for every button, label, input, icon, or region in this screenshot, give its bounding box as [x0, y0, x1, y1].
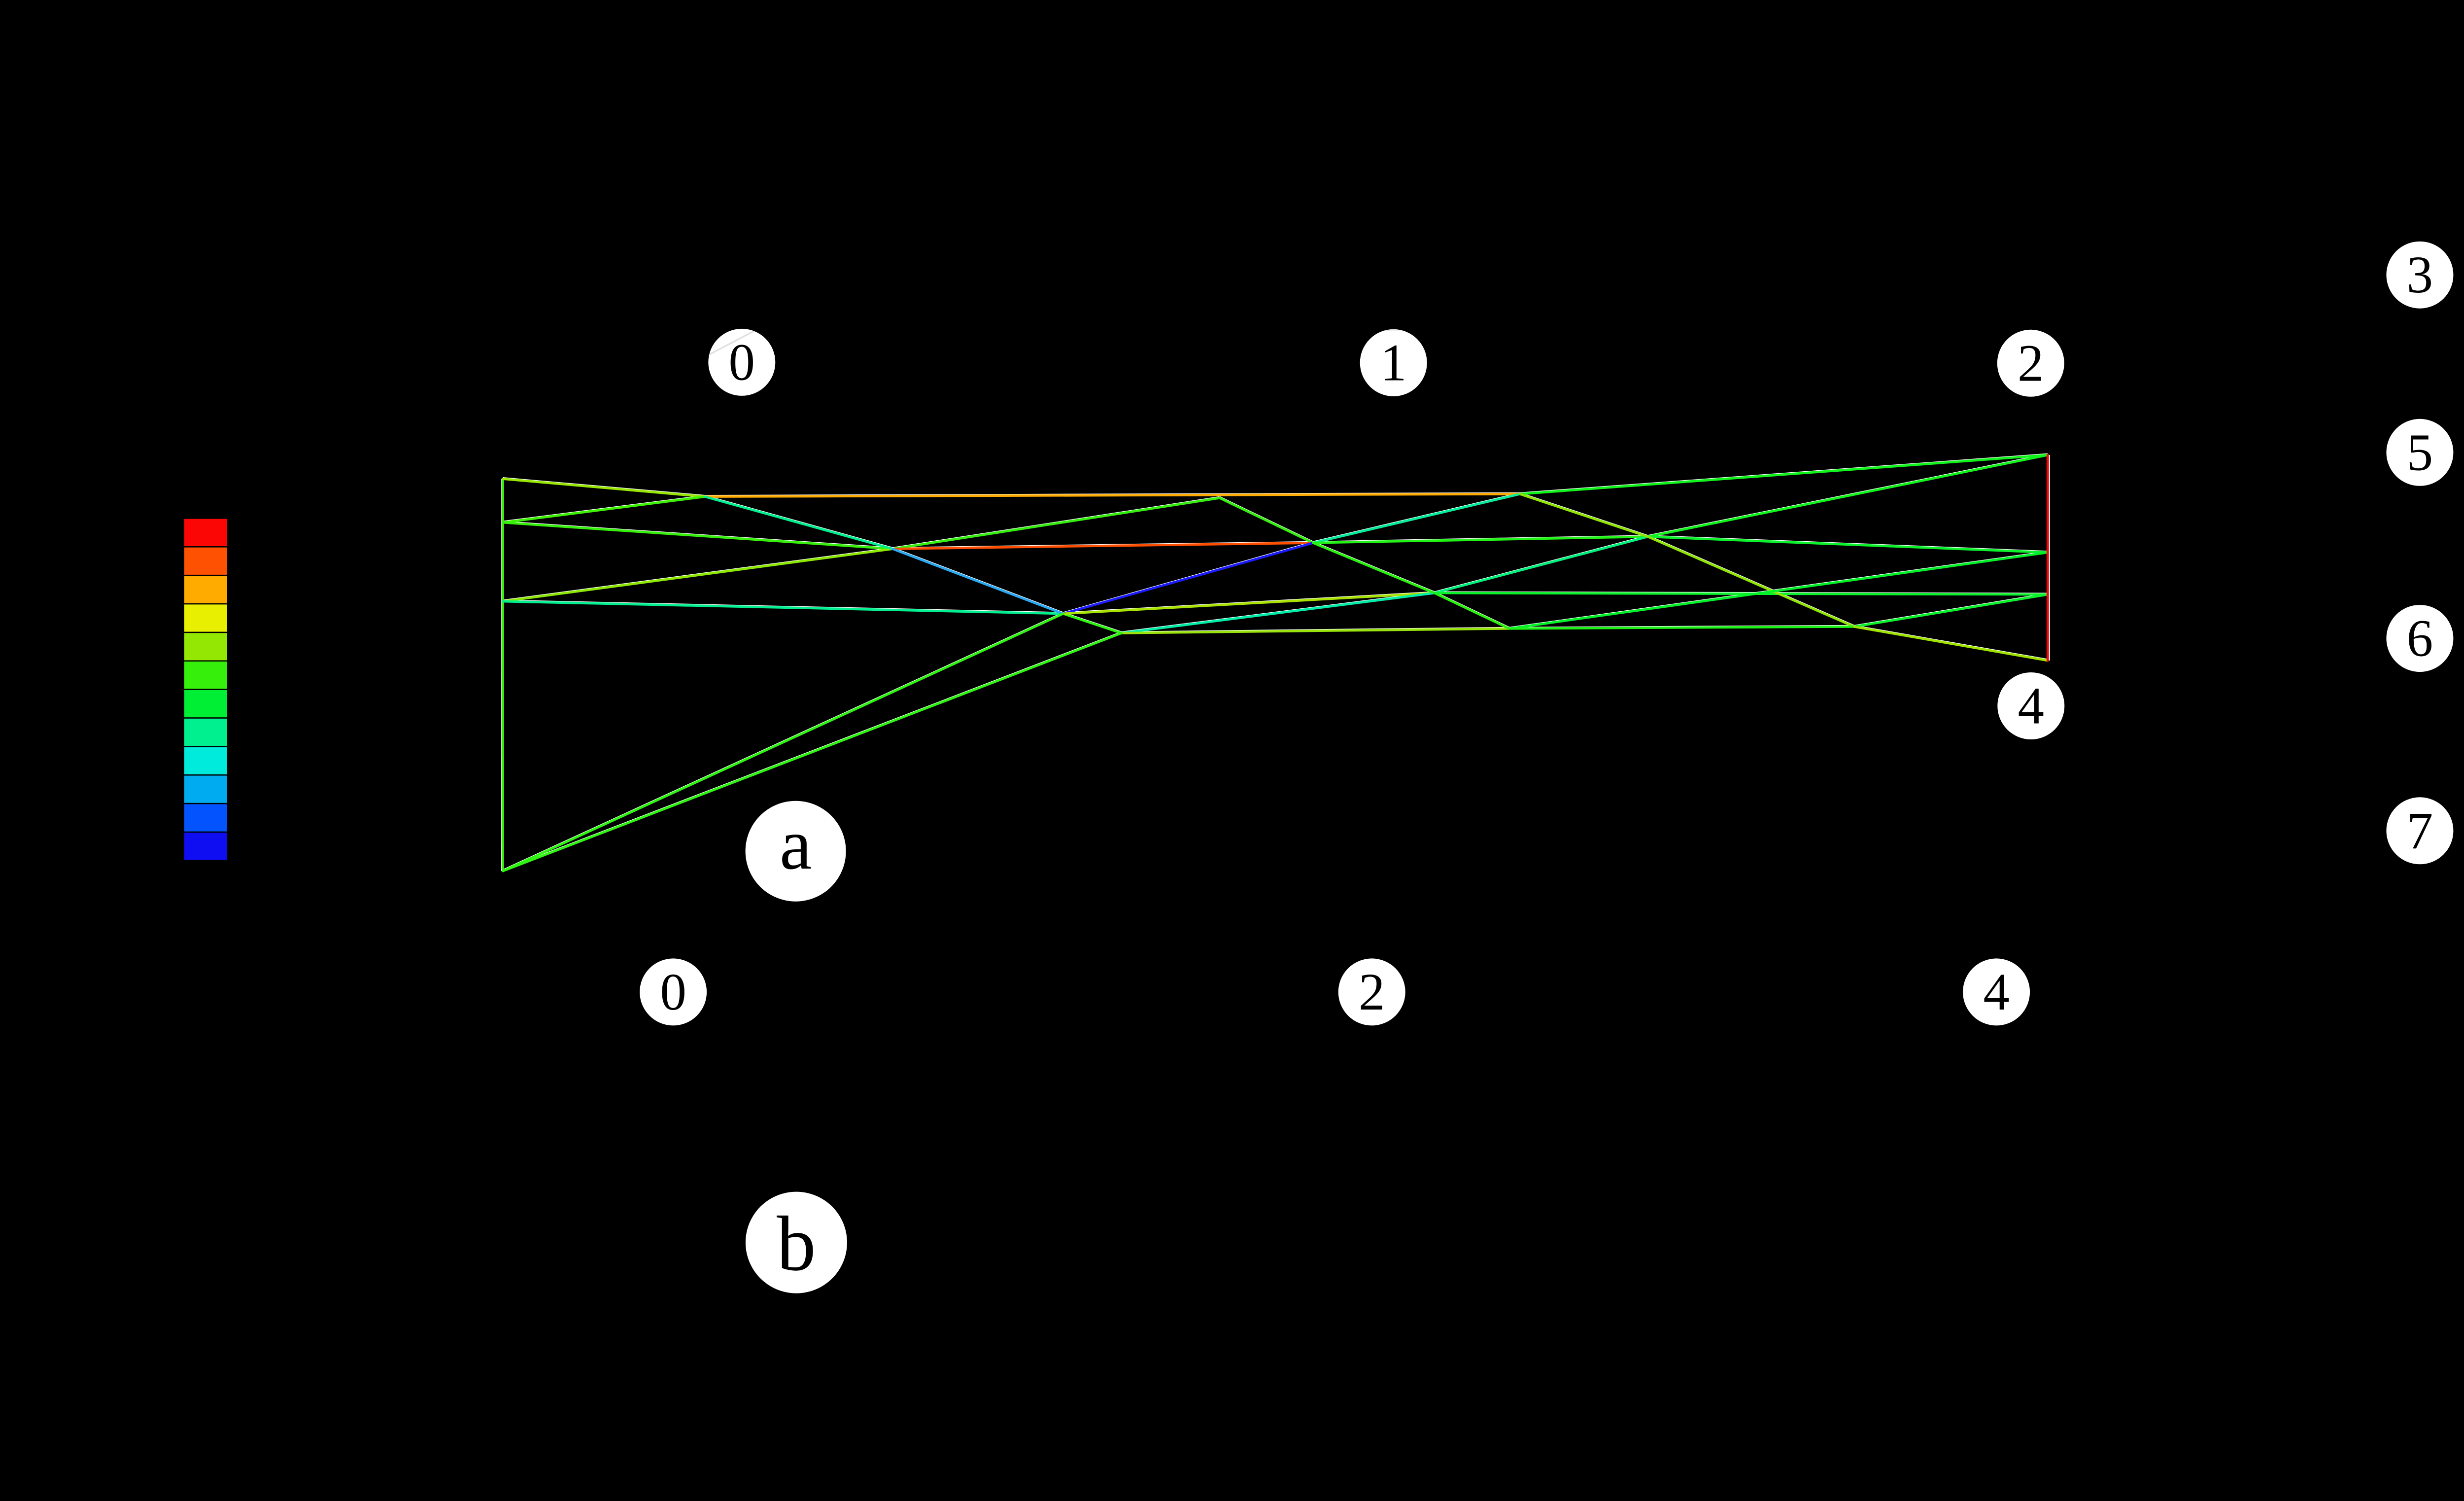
svg-text:7: 7	[2407, 802, 2433, 860]
svg-text:a: a	[780, 804, 812, 884]
svg-text:0: 0	[729, 333, 755, 391]
svg-text:b: b	[777, 1200, 816, 1287]
svg-text:2: 2	[2018, 334, 2044, 392]
svg-text:5: 5	[2407, 423, 2433, 482]
svg-text:4: 4	[2018, 677, 2045, 735]
svg-text:6: 6	[2407, 610, 2433, 668]
svg-text:2: 2	[1359, 963, 1385, 1021]
svg-text:1: 1	[1380, 334, 1407, 392]
svg-text:0: 0	[660, 963, 686, 1021]
svg-text:3: 3	[2407, 246, 2433, 304]
svg-text:4: 4	[1983, 963, 2010, 1021]
